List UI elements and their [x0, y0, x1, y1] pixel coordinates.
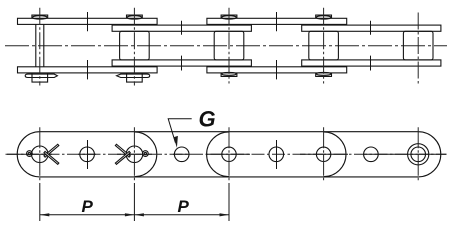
arrows at pin2 [125, 213, 134, 216]
pin 4 center line [228, 8, 230, 84]
arrow left at pin1 [40, 213, 50, 216]
pin 4 vertical center line [228, 127, 230, 181]
inner link 4 top plate bar [302, 25, 441, 31]
svg-text:P: P [82, 197, 94, 216]
outer link 3 top plate bar [207, 18, 347, 24]
pin 1 head [32, 15, 48, 18]
roller at pin 4 [214, 31, 244, 60]
pin 6 head [316, 15, 332, 18]
mid tick 87 bottom [87, 60, 89, 79]
centerline horizontal bottom view [6, 153, 447, 155]
pin 1 shank [36, 24, 44, 66]
cotter legs pin 2 [115, 144, 130, 157]
mid tick 276 bottom [276, 60, 278, 79]
outer link 3 bottom plate bar [207, 67, 347, 73]
mid tick 182 bottom [181, 56, 183, 71]
roller at pin 2 [120, 31, 150, 60]
mid tick 276 top [276, 12, 278, 31]
inner link 4 bottom plate bar [302, 60, 441, 66]
bush circle 276 [269, 147, 284, 162]
pin 1 vertical center line [39, 127, 41, 181]
cotter pin 1 (plan) [25, 74, 57, 77]
pin 1 circle [32, 146, 49, 163]
pin 2 circle [126, 146, 143, 163]
extension line pin4 [228, 183, 230, 221]
right end arc [418, 132, 441, 177]
extension line pin2 [133, 183, 135, 221]
left end arc [17, 132, 40, 177]
plate end arc at pin6 (opens right) [324, 132, 346, 177]
centerline horizontal top view [5, 45, 447, 47]
pin 8 center line [417, 13, 419, 84]
cotter pin 2 (plan) [117, 74, 150, 77]
bush circle 87 [80, 147, 95, 162]
pin 6 center line [323, 8, 325, 84]
end bush double circle [411, 147, 426, 162]
pin 2 head [127, 15, 143, 18]
pin 2 center line [133, 8, 135, 86]
pin 4 bottom head [221, 73, 237, 77]
pin 6 circle [316, 147, 330, 161]
outer link 1 top plate bar [18, 18, 158, 24]
mid tick 182 top [181, 21, 183, 35]
pin 6 bottom head [316, 73, 332, 77]
solid line through right circles [363, 153, 447, 155]
inner link 2 top plate bar [112, 25, 251, 31]
G leader line [168, 119, 192, 143]
mid tick 371 bottom [370, 56, 372, 71]
bush 276 vertical tick [276, 140, 278, 169]
svg-text:G: G [199, 106, 216, 131]
end bush vertical center line [417, 127, 419, 181]
pin 1 center line [39, 8, 41, 86]
inner link 2 bottom plate bar [112, 60, 251, 66]
pin 6 vertical center line [323, 127, 325, 181]
mid tick 87 top [87, 12, 89, 31]
roller at pin 6 [309, 31, 339, 60]
plate end arc at pin2 (opens right) [134, 132, 156, 177]
plate band bottom edge [40, 176, 418, 178]
pin 4 circle [222, 147, 236, 161]
pin 1 bottom end block [32, 73, 48, 82]
extension line pin1 [39, 183, 41, 221]
pin 4 head [221, 15, 237, 18]
svg-text:P: P [178, 197, 190, 216]
cotter eye pin 1 [27, 151, 33, 157]
plate band top edge [40, 131, 418, 133]
bush 87 vertical tick [87, 140, 89, 169]
roller at pin 8 [403, 31, 433, 60]
hole circle G at 182 [174, 147, 189, 162]
pin 2 vertical center line [133, 127, 135, 181]
dimension line P spans [40, 214, 229, 216]
outer link 1 bottom plate bar [18, 67, 158, 73]
cotter legs pin 1 [44, 144, 59, 157]
G leader arrowhead [174, 136, 178, 148]
arrow right at pin4 [220, 213, 230, 216]
pin 2 bottom end block [127, 73, 143, 82]
bush circle 371 [364, 147, 379, 162]
cotter eye pin 2 [143, 151, 149, 157]
mid tick 371 top [370, 21, 372, 35]
plate end arc at pin4 (opens left) [207, 132, 229, 177]
